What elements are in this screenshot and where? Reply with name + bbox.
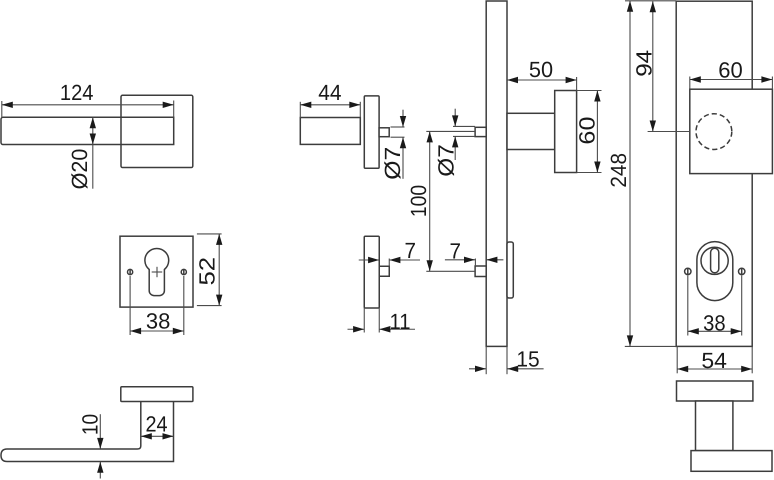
backplate front - oval cylinder rosette — [697, 242, 733, 301]
backplate front - thumbturn ring — [701, 247, 728, 274]
dimension 248 - extension lines — [625, 0, 676, 2]
dimension 52 - up arrow — [216, 234, 222, 245]
svg-text:100: 100 — [406, 185, 431, 217]
dimension 60 square - left arrow — [690, 76, 701, 82]
svg-text:248: 248 — [606, 153, 631, 188]
key rosette - right screw — [181, 269, 186, 274]
dimension 10 - lower leader with up arrow — [99, 462, 101, 479]
key rosette front view - square plate — [120, 236, 193, 307]
svg-text:44: 44 — [318, 80, 341, 105]
dimension D20 - down arrow — [90, 134, 96, 145]
dimension 38 - dimension line — [130, 330, 184, 332]
dimension 11 - right arrow leader — [379, 328, 415, 330]
svg-text:10: 10 — [78, 414, 103, 435]
dimension 44 - right arrow — [349, 102, 360, 108]
dimension 94 - down arrow — [650, 121, 656, 132]
lever bar redraw over rosette — [121, 117, 174, 144]
svg-text:Ø20: Ø20 — [67, 149, 92, 190]
backplate front - dashed knob circle — [696, 114, 732, 150]
backplate front - knob square — [690, 89, 773, 173]
dimension 38 oval - extension lines — [687, 276, 689, 336]
dimension 7 rosette - extension line — [388, 259, 390, 267]
knob side view - rose plate — [677, 381, 753, 401]
dimension 54 - extension lines — [676, 346, 678, 373]
dimension 94 - extension line — [648, 131, 690, 133]
lever handle top view - square rosette — [121, 95, 193, 167]
lever side view - rosette plate — [121, 387, 193, 402]
dimension 60 square - dimension line — [690, 79, 773, 81]
backplate side - knob neck — [507, 113, 555, 149]
dimension 7 rosette - left arrow leader — [359, 259, 379, 261]
lever front view - rosette side plate — [364, 96, 379, 168]
key rosette side view - plate — [364, 236, 379, 308]
dimension 60 knob - up arrow — [594, 91, 600, 102]
dimension 38 oval - dimension line — [688, 330, 742, 332]
dimension 248 - dimension line — [629, 1, 631, 347]
dimension 54 - left arrow — [677, 366, 688, 372]
dimension 50 - dimension line — [507, 79, 577, 81]
dimension 15 - extension lines — [485, 346, 487, 374]
dimension 100 - dimension line — [429, 131, 431, 271]
svg-text:7: 7 — [449, 238, 461, 263]
svg-text:124: 124 — [60, 80, 94, 105]
backplate side - knob head — [555, 91, 577, 173]
knob side view - head — [691, 451, 772, 472]
svg-text:15: 15 — [516, 346, 539, 371]
dimension 38 - right arrow — [173, 328, 184, 334]
svg-text:52: 52 — [195, 257, 220, 286]
dimension 60 square - right arrow — [761, 76, 772, 82]
dimension 11 - left arrow leader — [348, 328, 365, 330]
svg-text:Ø7: Ø7 — [434, 144, 459, 177]
dimension 24 - right arrow — [163, 433, 174, 439]
backplate front view - plate — [676, 1, 752, 346]
dimension 248 - down arrow — [627, 335, 633, 346]
dimension 52 - extension lines — [197, 233, 222, 235]
dimension 124 - left arrow — [2, 102, 13, 108]
dimension D7 spindle - extension lines — [391, 126, 405, 128]
backplate side view - plate — [486, 1, 507, 346]
svg-text:11: 11 — [390, 309, 411, 334]
lever handle top view - grip bar — [1, 117, 174, 144]
dimension 94 - up arrow — [650, 1, 656, 12]
dimension D7 spindle - upper leader with down arrow — [402, 110, 404, 127]
dimension 38 - extension lines — [129, 276, 131, 335]
backplate side - spindle stub — [475, 127, 486, 136]
dimension 124 - extension lines — [1, 101, 3, 117]
backplate side - cylinder stub — [475, 266, 486, 277]
dimension 54 - right arrow — [741, 366, 752, 372]
lever side view - grip and neck outline — [1, 402, 174, 462]
knob side view - neck — [696, 401, 733, 451]
dimension 24 - dimension line — [141, 435, 174, 437]
dimension D20 - up arrow — [90, 117, 96, 128]
dimension 100 - down arrow — [427, 260, 433, 271]
dimension 100 - up arrow — [427, 131, 433, 142]
dimension 7 cylinder stub - left arrow leader — [445, 259, 475, 261]
dimension 54 - dimension line — [677, 368, 752, 370]
backplate side - oval rosette profile — [507, 242, 513, 298]
dimension 7 rosette - right arrow leader — [389, 259, 420, 261]
dimension 124 - dimension line — [2, 104, 174, 106]
dimension 124 - right arrow — [163, 102, 174, 108]
dimension 50 - right arrow — [566, 77, 577, 83]
dimension D7 spindle - lower leader with up arrow — [402, 137, 404, 179]
dimension 60 square - extension lines — [689, 77, 691, 90]
dimension 24 - left arrow — [141, 433, 152, 439]
dimension 52 - down arrow — [216, 295, 222, 306]
svg-text:7: 7 — [404, 238, 416, 263]
svg-text:Ø7: Ø7 — [380, 147, 405, 180]
dimension 38 oval - left arrow — [688, 328, 699, 334]
dimension D20 - leader line — [92, 117, 94, 188]
dimension D7 plate spindle - lower leader with up arrow — [454, 136, 456, 160]
dimension 44 - dimension line — [300, 104, 360, 106]
key rosette - left screw — [128, 269, 133, 274]
svg-text:60: 60 — [718, 57, 743, 82]
dimension 10 - upper leader with down arrow — [99, 414, 101, 449]
backplate front - left screw — [685, 268, 691, 274]
backplate front - right screw — [739, 268, 745, 274]
dimension 60 knob - down arrow — [594, 162, 600, 173]
dimension 44 - left arrow — [300, 102, 311, 108]
dimension 38 oval - right arrow — [731, 328, 742, 334]
dimension 248 - up arrow — [627, 1, 633, 12]
dimension D7 plate spindle - upper leader with down arrow — [454, 109, 456, 127]
lever front view - spindle stub — [379, 128, 389, 137]
dimension 60 knob - dimension line — [596, 91, 598, 173]
backplate front - thumbturn knob — [711, 248, 719, 272]
key rosette side view - cylinder stub — [379, 266, 389, 276]
svg-text:94: 94 — [631, 50, 656, 77]
dimension 94 - dimension line — [652, 1, 654, 131]
dimension 50 - left arrow — [507, 77, 518, 83]
svg-text:60: 60 — [575, 116, 600, 144]
dimension 44 - extension lines — [299, 102, 301, 118]
dimension 38 - left arrow — [130, 328, 141, 334]
svg-text:38: 38 — [146, 309, 171, 334]
dimension 52 - dimension line — [218, 234, 220, 306]
svg-text:54: 54 — [701, 348, 727, 373]
dimension 7 cylinder stub - right arrow leader — [486, 259, 503, 261]
svg-text:24: 24 — [145, 412, 167, 437]
dimension 15 - left arrow leader — [469, 368, 486, 370]
dimension 7 cylinder stub - extension line — [474, 259, 476, 267]
lever front view - grip block — [300, 118, 360, 145]
key rosette - center cross mark — [152, 271, 163, 273]
key rosette - euro profile cylinder hole — [145, 248, 169, 295]
dimension 15 - right arrow leader — [507, 368, 543, 370]
dimension 50 - extension line — [576, 77, 578, 91]
svg-text:38: 38 — [703, 310, 726, 335]
svg-text:50: 50 — [529, 57, 553, 82]
dimension 60 knob - extension lines — [577, 90, 602, 92]
dimension 11 - extension lines — [363, 308, 365, 333]
dimension D7 plate spindle - extension lines — [453, 125, 475, 127]
dimension 100 - extension lines — [426, 130, 475, 132]
